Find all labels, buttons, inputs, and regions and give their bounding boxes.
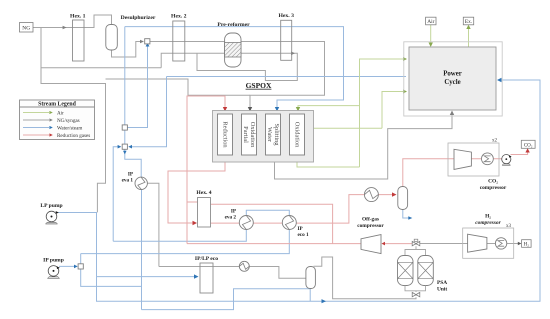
wire pre-reformer lower pass to GSPOX partial oxidation: [161, 53, 297, 80]
wire node2 bottom output: [125, 149, 141, 177]
svg-text:IP/LP eco: IP/LP eco: [195, 256, 218, 262]
arrow into Ex box: [466, 25, 470, 29]
Air source box: [426, 17, 436, 25]
svg-text:eva 1: eva 1: [122, 177, 134, 183]
svg-text:Ex.: Ex.: [465, 19, 472, 25]
heat exchanger syngas cooler circle: [364, 188, 378, 202]
svg-text:Desulphurizer: Desulphurizer: [121, 15, 156, 21]
NG source box: [20, 23, 34, 33]
svg-text:compressor: compressor: [480, 185, 507, 191]
wire node D bottom loop to flash vessel: [81, 269, 310, 310]
svg-text:LP pump: LP pump: [40, 203, 62, 209]
vessel Desulphurizer: [106, 15, 156, 50]
svg-text:Oxidation: Oxidation: [249, 122, 256, 148]
svg-text:Reduction: Reduction: [222, 121, 229, 148]
arrow into node2 right: [128, 145, 132, 149]
CO2 sink box: [521, 140, 535, 148]
wire lower bypass y68: [41, 67, 161, 69]
wire oxidation riser to PC: [360, 59, 407, 167]
wire Power Cycle top to Ex box: [468, 27, 470, 47]
arrow into Reduction top: [223, 107, 227, 112]
svg-text:Air: Air: [57, 111, 64, 117]
Stream Legend box: [20, 100, 95, 140]
wire node A through Hex2, pre-reformer, Hex3 to Power Cycle left: [150, 42, 325, 109]
wire separator water out: [403, 210, 409, 219]
arrow air into PC top: [429, 43, 433, 48]
arrow into Partial Oxidation top: [248, 107, 252, 112]
wire Hex4 upper tap: [187, 201, 198, 203]
wire Oxidation loop to Power Cycle left: [297, 158, 360, 167]
arrow into IP/LP eco left: [194, 274, 199, 278]
svg-text:Hex. 4: Hex. 4: [196, 190, 211, 196]
GSPOX reactor Reduction: [218, 114, 233, 155]
heat exchanger circle LP eva: [239, 261, 249, 271]
wire eco1 bottom to IP pump node header: [81, 230, 290, 254]
wire NG branch left loop: [41, 28, 106, 213]
heat exchanger Hex. 1: [70, 14, 86, 62]
svg-text:NG: NG: [22, 26, 30, 32]
wire valve to off-gas compressor: [384, 243, 413, 245]
arrow into node A: [140, 40, 144, 44]
wire PSA manifold bottom: [405, 286, 426, 293]
node D mixer square: [78, 264, 83, 269]
compressor H2 compressor group: [463, 214, 514, 259]
svg-text:Water/steam: Water/steam: [57, 126, 82, 132]
wire NG feed to Hex1 and Desulphurizer top: [33, 15, 112, 28]
svg-text:H₂: H₂: [524, 243, 530, 248]
svg-text:Cycle: Cycle: [444, 79, 460, 86]
wire Oxidation side outlet: [307, 127, 382, 129]
wire IP eva1 right to eco line: [147, 183, 159, 266]
vessel LP flash drum: [306, 267, 316, 289]
arrow NG feed: [63, 26, 67, 30]
wire condensate return bottom long: [97, 80, 541, 301]
wire H2 compressor internals to H2 box: [450, 243, 520, 245]
arrow on wire after Hex3: [291, 52, 295, 56]
GSPOX reactor Water Splitting: [266, 114, 281, 155]
compressor Off-gas compressor: [357, 217, 384, 254]
wire PSA tail gas to flash vessel: [314, 257, 417, 299]
wire Water Splitting bottom to Power Cycle bottom: [275, 114, 453, 180]
wire PSA top valve to H2 compressor: [420, 243, 463, 245]
wire Hex4 lower right through eva2 eco1 to HX riser: [211, 195, 394, 224]
node B splitter square: [122, 125, 127, 130]
wire eva2 top to eco1 top: [246, 210, 289, 216]
heat exchanger IP/LP eco: [195, 256, 218, 293]
wire long steam header top: [125, 27, 344, 108]
wire node1 right to node A riser: [127, 45, 147, 128]
svg-text:Hex. 3: Hex. 3: [278, 13, 294, 19]
arrow separator water out: [408, 216, 412, 220]
wire flash vessel bottom blowdown: [309, 289, 311, 301]
svg-text:Air: Air: [427, 19, 434, 25]
svg-text:Unit: Unit: [437, 287, 447, 293]
svg-text:Hex. 1: Hex. 1: [70, 14, 86, 20]
svg-text:Hex. 2: Hex. 2: [171, 14, 187, 20]
wire steam header left drop to node1: [124, 27, 126, 125]
svg-text:Oxidation: Oxidation: [294, 122, 301, 148]
arrow into node D: [74, 265, 78, 269]
arrow into off-gas compressor right: [382, 242, 386, 246]
svg-text:NG/syngas: NG/syngas: [57, 118, 80, 124]
svg-text:Pre-reformer: Pre-reformer: [217, 22, 250, 28]
heat exchanger Hex. 3: [278, 13, 294, 60]
heat exchanger Hex. 4: [196, 190, 211, 227]
heat exchanger Hex. 2: [171, 14, 187, 62]
arrow into PC left y58.5: [403, 57, 407, 61]
wire off-gas return riser to Reduction: [187, 96, 225, 244]
wire Hex4 upper right to off-gas junction: [211, 204, 333, 243]
vessel Pre-reformer: [217, 22, 250, 67]
svg-text:x2: x2: [492, 139, 498, 144]
GSPOX reactor Partial Oxidation: [242, 114, 257, 155]
wire olive PC input y91.5 riser: [382, 92, 406, 129]
valve PSA feed: [412, 239, 420, 246]
arrow into H2 box: [518, 242, 522, 246]
wire Reduction bottom to Hex4: [168, 157, 225, 223]
svg-text:IP pump: IP pump: [43, 257, 64, 263]
wire PSA manifold top: [405, 246, 426, 255]
wire node2 right input riser: [130, 77, 167, 147]
wire IP/LP eco top line to HX circle and flash vessel: [159, 267, 306, 279]
wire long feedwater line y76.5 into Power Cycle: [167, 76, 407, 78]
wire LP feed into IP/LP eco: [97, 276, 198, 278]
wire eva1 bottom to condensate header: [141, 190, 143, 310]
svg-text:Stream Legend: Stream Legend: [38, 101, 77, 107]
GSPOX unit box: [213, 111, 314, 163]
svg-text:Partial: Partial: [242, 126, 249, 143]
heat exchanger IP eva 2: [225, 209, 254, 230]
wire condensate header y241 to eva2 bottom: [113, 230, 246, 242]
node C mixer square: [122, 144, 127, 149]
Power Cycle block: [404, 42, 502, 116]
wire Desulphurizer bottom to mixer node A: [112, 42, 143, 58]
arrow into PC left y91.5: [403, 90, 407, 94]
svg-text:CO₂: CO₂: [524, 143, 533, 148]
svg-text:eva 2: eva 2: [225, 215, 237, 221]
svg-text:Splitting: Splitting: [273, 123, 280, 146]
svg-text:H₂: H₂: [485, 214, 491, 220]
arrow into separator left: [392, 192, 397, 196]
wire IP pump to node D: [59, 265, 76, 267]
wire branch to Oxidation top: [298, 106, 360, 108]
heat exchanger IP eco 1: [282, 216, 309, 239]
svg-text:PSA: PSA: [437, 280, 447, 286]
valve PSA bottom: [412, 292, 420, 296]
wire node1 to node2: [124, 130, 126, 144]
arrow blowdown: [322, 299, 327, 303]
arrow into node2 left: [118, 145, 122, 149]
arrow into Power Cycle bottom: [450, 111, 454, 116]
arrow into Oxidation top: [296, 107, 300, 112]
svg-text:GSPOX: GSPOX: [246, 81, 272, 90]
wire separator top to CO2 compressor: [403, 159, 454, 187]
wire node D top branch: [80, 254, 82, 264]
wire CO2 compressor internals: [471, 158, 501, 160]
pump IP pump: [43, 257, 64, 278]
arrow into Hex4 left: [193, 221, 198, 225]
svg-text:Off-gas: Off-gas: [362, 217, 379, 223]
svg-text:Water: Water: [266, 127, 273, 143]
GSPOX reactor Oxidation: [290, 114, 305, 155]
heat exchanger IP eva 1: [122, 172, 148, 190]
svg-text:Reduction gases: Reduction gases: [57, 133, 90, 139]
wire CO2 fan to CO2 box: [511, 151, 528, 155]
wire node2 left input riser: [113, 147, 119, 242]
node A mixer square: [145, 39, 150, 44]
svg-text:eco 1: eco 1: [298, 232, 309, 238]
svg-text:compressor: compressor: [357, 223, 384, 229]
arrow up into node A: [146, 43, 150, 47]
svg-text:compressor: compressor: [475, 220, 501, 226]
arrow into Water Splitting top: [275, 107, 279, 112]
vessel separator knockout drum: [398, 187, 408, 210]
wire Partial Oxidation feed: [106, 79, 251, 95]
svg-text:Power: Power: [443, 71, 462, 78]
vessel PSA bed 2: [418, 256, 448, 293]
arrow into Power Cycle right: [497, 78, 502, 82]
wire Air box into Power Cycle top: [430, 25, 432, 45]
vessel PSA bed 1: [398, 256, 414, 286]
svg-text:x3: x3: [506, 224, 512, 229]
wire off-gas compressor outlet header: [187, 243, 361, 245]
pump CO2 fan: [502, 155, 512, 166]
pump LP pump: [40, 203, 62, 224]
wire LP pump discharge: [58, 213, 97, 277]
Ex sink box: [463, 17, 473, 25]
arrow up into CO2 box: [525, 148, 529, 152]
compressor CO2 compressor group: [448, 139, 507, 192]
arrow below node2: [123, 151, 127, 155]
H2 sink box: [522, 240, 532, 248]
svg-text:CO₂: CO₂: [488, 179, 498, 185]
